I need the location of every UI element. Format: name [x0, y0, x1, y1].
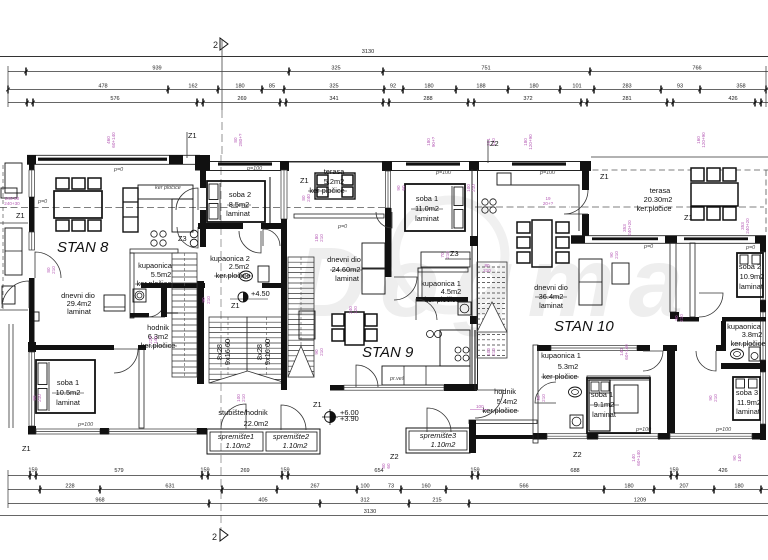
svg-text:9.1m2: 9.1m2	[594, 400, 615, 409]
stan9 stair flight	[288, 257, 314, 377]
kupaonica stan8 walls	[130, 249, 178, 253]
svg-text:210: 210	[51, 266, 56, 274]
svg-text:90+?: 90+?	[431, 136, 436, 147]
svg-text:ker.pločice: ker.pločice	[483, 406, 518, 415]
stan10 top wall	[571, 235, 766, 237]
svg-text:210: 210	[713, 394, 718, 402]
svg-text:soba 2: soba 2	[739, 262, 761, 271]
svg-text:soba 1: soba 1	[416, 194, 438, 203]
svg-text:1.10m2: 1.10m2	[283, 441, 308, 450]
svg-text:p=0: p=0	[745, 245, 755, 251]
soba1 stan10	[587, 376, 650, 380]
svg-text:101: 101	[572, 84, 581, 90]
terasa left wall stub	[582, 161, 589, 190]
svg-text:Z2: Z2	[490, 139, 499, 148]
svg-text:566: 566	[519, 484, 528, 490]
svg-text:631: 631	[165, 484, 174, 490]
svg-text:426: 426	[718, 468, 727, 474]
svg-text:240+30: 240+30	[4, 201, 20, 206]
svg-text:478: 478	[98, 84, 107, 90]
stan9 kupaonica1	[421, 252, 470, 267]
svg-text:210: 210	[206, 296, 211, 304]
svg-text:269: 269	[240, 468, 249, 474]
svg-text:+3.90: +3.90	[340, 414, 359, 423]
svg-text:terasa: terasa	[324, 167, 345, 176]
stan8 bottom wall	[28, 428, 36, 435]
terasa left wall	[281, 161, 287, 171]
svg-text:9x16.60: 9x16.60	[263, 339, 272, 365]
svg-text:210: 210	[445, 251, 450, 259]
svg-text:spremište2: spremište2	[273, 432, 309, 441]
svg-text:60+140: 60+140	[624, 344, 629, 360]
stairwell left wall	[161, 283, 167, 317]
svg-text:Z1: Z1	[313, 400, 322, 409]
svg-text:188: 188	[476, 84, 485, 90]
svg-text:120+90: 120+90	[528, 134, 533, 150]
svg-text:soba 1: soba 1	[57, 378, 79, 387]
svg-text:162: 162	[188, 84, 197, 90]
svg-text:288: 288	[423, 96, 432, 102]
svg-text:Z1: Z1	[300, 176, 309, 185]
svg-text:939: 939	[152, 66, 161, 72]
svg-text:dnevni dio: dnevni dio	[327, 255, 361, 264]
svg-text:8.5m2: 8.5m2	[229, 200, 250, 209]
svg-text:soba 2: soba 2	[229, 190, 251, 199]
terasa 20.30 dashed outline	[591, 156, 768, 158]
svg-text:pr.veš: pr.veš	[389, 376, 405, 382]
soba1 bed	[36, 360, 95, 413]
svg-text:140: 140	[737, 454, 742, 462]
svg-text:Z2: Z2	[573, 450, 582, 459]
spremiste3	[406, 428, 470, 453]
svg-text:210: 210	[37, 394, 42, 402]
svg-text:1209: 1209	[634, 498, 646, 504]
svg-text:p=0: p=0	[337, 224, 347, 230]
terasa bottom thin wall	[294, 214, 384, 218]
svg-text:60: 60	[401, 185, 406, 191]
svg-text:22.0m2: 22.0m2	[244, 419, 269, 428]
svg-text:2: 2	[213, 40, 218, 50]
stairwell right wall	[281, 232, 287, 390]
svg-text:ker.pločice: ker.pločice	[637, 204, 672, 213]
stan9 terasa small	[315, 173, 355, 199]
svg-text:laminat: laminat	[736, 407, 760, 416]
svg-text:STAN 8: STAN 8	[57, 239, 109, 256]
svg-text:120: 120	[353, 306, 358, 314]
stair flight stan8	[172, 253, 197, 377]
svg-text:210: 210	[483, 268, 491, 273]
svg-text:p=0: p=0	[37, 199, 47, 205]
svg-text:215: 215	[432, 498, 441, 504]
svg-text:soba 1: soba 1	[591, 390, 613, 399]
svg-text:kupaonica: kupaonica	[138, 261, 173, 270]
svg-text:228: 228	[65, 484, 74, 490]
svg-text:159: 159	[470, 468, 479, 474]
kupaonica 3.8	[677, 317, 699, 322]
kupaonica1 stan10	[533, 345, 538, 443]
svg-text:p=100: p=100	[77, 422, 93, 428]
svg-text:100: 100	[360, 484, 369, 490]
svg-text:92: 92	[390, 84, 396, 90]
wall under kupaonica2	[141, 283, 205, 288]
svg-text:426: 426	[728, 96, 737, 102]
stan9 sofa	[362, 243, 385, 268]
stan9 kitchen	[382, 366, 470, 385]
svg-text:207: 207	[679, 484, 688, 490]
svg-text:3130: 3130	[364, 509, 376, 515]
svg-text:100: 100	[476, 404, 484, 409]
mid horizontal wall stan10	[537, 345, 551, 351]
svg-text:372: 372	[523, 96, 532, 102]
right wall piece + wall to stan10	[469, 420, 476, 453]
svg-text:ker pločice: ker pločice	[309, 186, 344, 195]
svg-text:laminat: laminat	[415, 214, 439, 223]
svg-text:180: 180	[734, 484, 743, 490]
hob + sink	[151, 231, 157, 237]
svg-text:159: 159	[28, 468, 37, 474]
svg-text:210: 210	[319, 234, 324, 242]
soba1 partition	[139, 349, 144, 428]
svg-text:20+?: 20+?	[543, 201, 554, 206]
svg-text:160: 160	[421, 484, 430, 490]
svg-text:1.10m2: 1.10m2	[431, 440, 456, 449]
svg-text:579: 579	[114, 468, 123, 474]
svg-text:laminat: laminat	[335, 274, 359, 283]
stan8 kitchen	[123, 188, 138, 232]
stan8 dining table	[54, 191, 102, 218]
svg-text:ker pločice: ker pločice	[155, 185, 181, 191]
outer left wall	[29, 155, 35, 170]
stan10 sofa	[579, 259, 602, 305]
svg-text:Z1: Z1	[684, 213, 693, 222]
sofa stan8	[104, 295, 125, 311]
svg-text:405: 405	[258, 498, 267, 504]
stan9 dining table	[345, 312, 364, 345]
svg-text:ker pločice: ker pločice	[542, 372, 577, 381]
spremiste boxes	[207, 429, 320, 454]
svg-text:688: 688	[570, 468, 579, 474]
section marker 2 top	[213, 38, 228, 155]
wall below stan9 kitchen	[330, 385, 344, 391]
svg-text:766: 766	[692, 66, 701, 72]
svg-text:269: 269	[237, 96, 246, 102]
soba 11.9	[733, 377, 760, 420]
svg-text:576: 576	[110, 96, 119, 102]
pink dimension annotations	[622, 220, 632, 236]
svg-text:Z1: Z1	[600, 172, 609, 181]
svg-text:341: 341	[329, 96, 338, 102]
svg-text:36.4m2: 36.4m2	[539, 292, 564, 301]
svg-text:210: 210	[241, 394, 246, 402]
svg-text:240: 240	[306, 194, 311, 202]
svg-text:STAN 9: STAN 9	[362, 344, 414, 361]
svg-text:10.5m2: 10.5m2	[56, 388, 81, 397]
svg-text:Z3: Z3	[450, 249, 459, 258]
svg-text:159: 159	[200, 468, 209, 474]
left balcony furniture	[2, 165, 4, 310]
svg-text:210: 210	[614, 251, 619, 259]
svg-text:p=100: p=100	[715, 427, 731, 433]
svg-text:20.30m2: 20.30m2	[644, 195, 673, 204]
svg-text:p=0: p=0	[113, 167, 123, 173]
svg-text:267: 267	[310, 484, 319, 490]
dashed centerline	[0, 207, 390, 209]
svg-text:325: 325	[329, 84, 338, 90]
svg-text:laminat: laminat	[67, 307, 91, 316]
terasa stan9 front line	[289, 161, 382, 163]
svg-text:210: 210	[319, 348, 324, 356]
dimension block bottom	[0, 468, 768, 516]
svg-text:358: 358	[736, 84, 745, 90]
svg-text:p=100: p=100	[539, 170, 555, 176]
soba 10.9 bed + labels	[737, 253, 763, 297]
stan9 internal stairs	[477, 262, 507, 358]
soba2 stan8 bed	[207, 181, 265, 222]
svg-text:210: 210	[679, 314, 684, 322]
svg-text:laminat: laminat	[539, 301, 563, 310]
soba1 stan8 top wall	[28, 345, 114, 350]
svg-text:spremište1: spremište1	[218, 432, 254, 441]
stairwell core two flights	[209, 317, 247, 383]
svg-text:325: 325	[331, 66, 340, 72]
svg-text:soba 3: soba 3	[736, 388, 758, 397]
svg-text:24.60m2: 24.60m2	[332, 265, 361, 274]
svg-text:751: 751	[481, 66, 490, 72]
svg-text:5.2m2: 5.2m2	[324, 177, 345, 186]
svg-text:1.10m2: 1.10m2	[226, 441, 251, 450]
svg-text:STAN 10: STAN 10	[554, 318, 614, 335]
svg-text:73: 73	[388, 484, 394, 490]
level symbol	[238, 292, 248, 302]
svg-text:Z1: Z1	[16, 211, 25, 220]
stan9 soba1 bed + label	[405, 184, 465, 231]
svg-text:85: 85	[269, 84, 275, 90]
stan10 right wall	[760, 236, 766, 252]
soba2 right thin wall	[269, 177, 271, 228]
svg-text:180: 180	[235, 84, 244, 90]
svg-text:laminat: laminat	[226, 209, 250, 218]
svg-text:3130: 3130	[362, 49, 374, 55]
svg-text:hodnik: hodnik	[494, 387, 516, 396]
svg-text:dnevni dio: dnevni dio	[534, 283, 568, 292]
svg-text:Z3: Z3	[178, 234, 187, 243]
outer top wall level A	[27, 154, 200, 156]
stan10 bottom wall	[533, 433, 547, 440]
outer top wall level B	[200, 161, 591, 163]
stan10 dining table	[532, 220, 552, 267]
svg-text:Z1: Z1	[231, 301, 240, 310]
svg-text:280+?: 280+?	[238, 133, 243, 146]
svg-text:11.0m2: 11.0m2	[415, 204, 439, 213]
top wall pillars	[27, 155, 36, 164]
svg-text:240+20: 240+20	[627, 220, 632, 236]
svg-text:968: 968	[95, 498, 104, 504]
svg-text:60+140: 60+140	[111, 132, 116, 148]
svg-text:9x16.60: 9x16.60	[223, 339, 232, 365]
svg-text:spremište3: spremište3	[420, 431, 457, 440]
svg-text:180: 180	[424, 84, 433, 90]
lower left wall	[28, 342, 36, 352]
wall below soba2	[198, 223, 243, 229]
svg-text:hodnik: hodnik	[147, 323, 169, 332]
stan8 inner wall vertical x200	[200, 164, 206, 188]
svg-text:p=0: p=0	[643, 244, 653, 250]
dimension block top	[0, 49, 768, 107]
svg-text:5.3m2: 5.3m2	[558, 362, 579, 371]
svg-text:Z1: Z1	[22, 444, 31, 453]
section line vertical	[220, 155, 222, 530]
svg-text:terasa: terasa	[650, 186, 671, 195]
stan10 inner wall top-down x677	[670, 243, 676, 312]
svg-text:11.9m2: 11.9m2	[737, 398, 761, 407]
svg-text:120+90: 120+90	[701, 132, 706, 148]
section marker 2 bottom	[212, 529, 228, 542]
svg-text:p=100: p=100	[246, 166, 262, 172]
svg-text:281: 281	[622, 96, 631, 102]
svg-text:10.9m2: 10.9m2	[740, 272, 765, 281]
svg-text:180: 180	[529, 84, 538, 90]
svg-text:240+20: 240+20	[745, 218, 750, 234]
svg-text:ker pločice: ker pločice	[424, 295, 459, 304]
stan10 kitchen	[482, 199, 488, 205]
svg-text:+4.50: +4.50	[251, 289, 270, 298]
svg-text:Z2: Z2	[390, 452, 399, 461]
svg-text:p=100: p=100	[435, 170, 451, 176]
svg-text:2: 2	[212, 532, 217, 542]
svg-text:kupaonica 1: kupaonica 1	[541, 351, 581, 360]
middle wall between bottom rooms	[667, 345, 675, 433]
svg-text:60: 60	[386, 463, 391, 469]
svg-text:140: 140	[153, 336, 158, 344]
svg-text:283: 283	[622, 84, 631, 90]
svg-text:laminat: laminat	[592, 410, 616, 419]
stan9 soba1 right wall	[471, 169, 473, 390]
svg-text:laminat: laminat	[739, 282, 763, 291]
svg-text:5.4m2: 5.4m2	[497, 397, 518, 406]
svg-text:5.5m2: 5.5m2	[151, 270, 172, 279]
svg-text:3.8m2: 3.8m2	[742, 330, 763, 339]
terasa table	[691, 183, 738, 206]
svg-text:60+140: 60+140	[636, 450, 641, 466]
svg-text:210: 210	[491, 348, 496, 356]
svg-text:159: 159	[669, 468, 678, 474]
svg-text:180: 180	[624, 484, 633, 490]
svg-text:stubište/hodnik: stubište/hodnik	[218, 408, 268, 417]
svg-text:Z1: Z1	[188, 131, 197, 140]
stan9 soba1 left wall	[385, 161, 392, 171]
svg-text:159: 159	[280, 468, 289, 474]
svg-text:312: 312	[360, 498, 369, 504]
svg-text:93: 93	[677, 84, 683, 90]
svg-text:2.5m2: 2.5m2	[229, 262, 250, 271]
svg-text:210: 210	[541, 394, 546, 402]
svg-text:laminat: laminat	[56, 398, 80, 407]
svg-text:210: 210	[471, 184, 476, 192]
